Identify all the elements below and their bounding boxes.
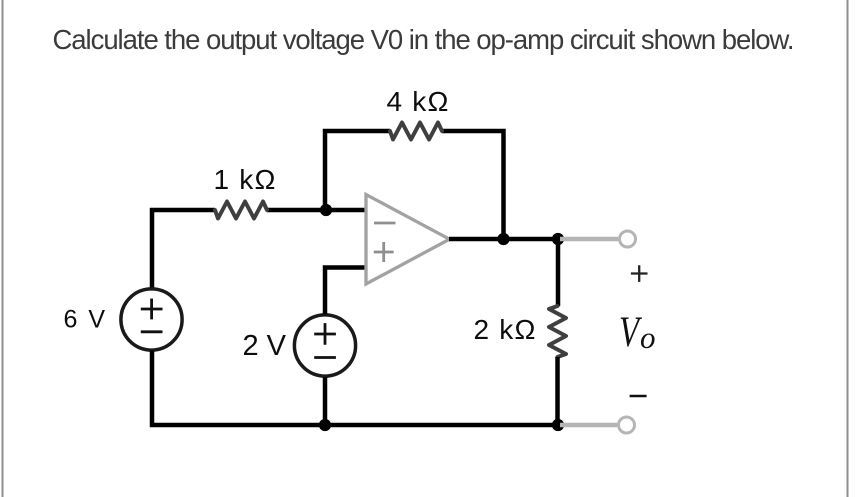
wire: gray output lead bottom: [560, 423, 617, 428]
output polarity minus: [630, 395, 647, 398]
wire: right rail bottom segment: [555, 357, 560, 425]
svg-text:o: o: [640, 320, 656, 355]
left page border: [2, 0, 4, 497]
wire: gray output lead top: [560, 237, 618, 242]
svg-text:4 kΩ: 4 kΩ: [387, 86, 450, 117]
wire: 4k resistor right lead down to output node: [442, 131, 504, 241]
terminal: open circle bottom: [619, 417, 635, 433]
op-amp inverting input minus sign: [374, 222, 396, 225]
svg-text:1 kΩ: 1 kΩ: [214, 164, 277, 195]
V1 minus sign: [141, 330, 163, 333]
wire: left lead of 1k from source corner: [152, 210, 215, 289]
op-amp U1 triangle: [366, 195, 450, 285]
voltage source V2 2V circle: [294, 315, 355, 376]
node: junction dot at output / 2k top: [552, 233, 564, 245]
wire: feedback top-left (node A up and across to 4k resistor): [325, 131, 390, 212]
output polarity plus: [631, 265, 648, 282]
V1 plus sign: [141, 299, 163, 320]
resistor R2 4k zigzag: [390, 123, 442, 140]
op-amp non-inverting input plus sign: [374, 242, 394, 262]
resistor R1 1k zigzag: [215, 202, 267, 219]
svg-text:Calculate the output voltage V: Calculate the output voltage V0 in the o…: [53, 24, 794, 55]
wire: 1k right lead to op-amp inverting input: [267, 208, 366, 213]
right page border: [847, 0, 849, 497]
wire: 2V bottom lead to bottom rail: [323, 377, 328, 425]
node: junction dot at 2V bottom: [319, 419, 331, 431]
svg-text:6 V: 6 V: [64, 305, 108, 333]
node: junction dot at 1k / feedback: [320, 204, 332, 216]
wire: left bottom L from 6V to bottom rail: [152, 351, 560, 426]
wire: 2V top lead to op-amp non-inverting input: [325, 268, 367, 315]
node: junction dot at 2k bottom: [552, 419, 564, 431]
svg-text:V: V: [619, 309, 642, 356]
V2 plus sign: [314, 323, 336, 345]
svg-text:2 kΩ: 2 kΩ: [474, 314, 537, 345]
svg-text:2 V: 2 V: [243, 330, 287, 362]
node: junction dot at op-amp output / feedback: [497, 233, 509, 245]
voltage source V1 6V circle: [121, 289, 182, 350]
wire: right rail top segment to 2k: [556, 239, 561, 306]
resistor R3 2k zigzag: [549, 306, 566, 357]
terminal: open circle top: [620, 231, 636, 247]
wire: op-amp output to right rail: [449, 237, 558, 242]
V2 minus sign: [314, 356, 336, 359]
output label Vo: [619, 309, 642, 356]
